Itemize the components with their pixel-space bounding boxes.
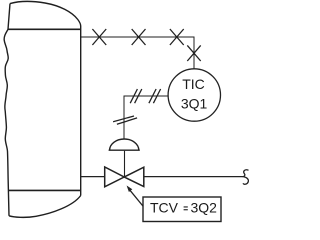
svg-text:3Q1: 3Q1 (181, 95, 208, 111)
svg-text:TIC: TIC (182, 76, 205, 92)
svg-text:TCV: TCV (150, 199, 179, 215)
svg-text:3Q2: 3Q2 (191, 199, 218, 215)
